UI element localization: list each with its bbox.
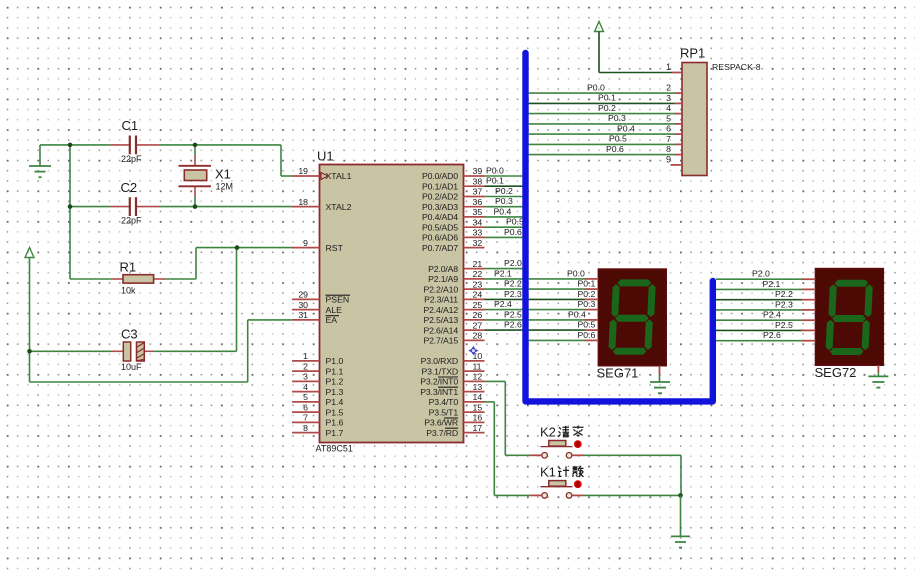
svg-text:24: 24 (473, 290, 483, 300)
svg-text:P2.5: P2.5 (504, 309, 522, 319)
svg-text:K2: K2 (540, 424, 556, 439)
svg-text:6: 6 (303, 402, 308, 412)
svg-text:P0.0: P0.0 (587, 82, 605, 92)
svg-text:9: 9 (666, 155, 671, 165)
svg-text:13: 13 (473, 382, 483, 392)
svg-text:P2.4/A12: P2.4/A12 (423, 305, 458, 315)
svg-text:10k: 10k (121, 286, 136, 296)
svg-text:P3.4/T0: P3.4/T0 (429, 397, 459, 407)
svg-text:5: 5 (303, 392, 308, 402)
svg-text:2: 2 (303, 361, 308, 371)
svg-text:33: 33 (473, 228, 483, 238)
svg-text:31: 31 (298, 310, 308, 320)
svg-text:28: 28 (473, 331, 483, 341)
svg-text:X1: X1 (215, 167, 231, 182)
svg-text:22pF: 22pF (121, 154, 142, 164)
svg-text:3: 3 (666, 93, 671, 103)
svg-text:37: 37 (473, 187, 483, 197)
svg-text:P3.5/T1: P3.5/T1 (429, 407, 459, 417)
svg-text:P3.7/RD: P3.7/RD (426, 428, 458, 438)
svg-text:P2.6/A14: P2.6/A14 (423, 325, 458, 335)
svg-text:P1.0: P1.0 (326, 356, 344, 366)
svg-text:P2.2/A10: P2.2/A10 (423, 284, 458, 294)
svg-text:11: 11 (473, 361, 482, 371)
svg-text:P2.0: P2.0 (752, 269, 770, 279)
svg-text:P0.2: P0.2 (495, 186, 513, 196)
svg-text:P0.3: P0.3 (578, 299, 596, 309)
svg-text:17: 17 (473, 423, 483, 433)
svg-text:10uF: 10uF (121, 362, 142, 372)
svg-text:P0.4/AD4: P0.4/AD4 (422, 212, 458, 222)
svg-text:P0.5: P0.5 (609, 134, 627, 144)
svg-text:AT89C51: AT89C51 (316, 444, 353, 454)
svg-text:XTAL1: XTAL1 (326, 171, 352, 181)
svg-text:8: 8 (303, 423, 308, 433)
svg-text:3: 3 (303, 372, 308, 382)
svg-text:P0.2: P0.2 (598, 103, 616, 113)
svg-text:P2.0: P2.0 (504, 258, 522, 268)
svg-text:38: 38 (473, 176, 483, 186)
svg-text:P2.6: P2.6 (504, 320, 522, 330)
svg-text:P2.5: P2.5 (775, 320, 793, 330)
svg-text:C2: C2 (121, 180, 138, 195)
svg-text:RST: RST (326, 243, 344, 253)
svg-text:29: 29 (298, 290, 308, 300)
svg-text:27: 27 (473, 320, 483, 330)
svg-text:P0.7/AD7: P0.7/AD7 (422, 243, 458, 253)
svg-text:P2.5/A13: P2.5/A13 (423, 315, 458, 325)
svg-text:P1.4: P1.4 (326, 397, 344, 407)
svg-text:8: 8 (666, 144, 671, 154)
svg-text:2: 2 (666, 83, 671, 93)
svg-text:P0.4: P0.4 (617, 123, 635, 133)
svg-text:34: 34 (473, 217, 483, 227)
svg-text:P1.3: P1.3 (326, 387, 344, 397)
svg-text:39: 39 (473, 166, 483, 176)
svg-text:C1: C1 (122, 118, 139, 133)
svg-text:P0.1: P0.1 (578, 279, 596, 289)
svg-text:P0.3: P0.3 (608, 113, 626, 123)
svg-text:P2.1/A9: P2.1/A9 (428, 274, 458, 284)
svg-text:5: 5 (666, 114, 671, 124)
svg-text:25: 25 (473, 300, 483, 310)
svg-text:R1: R1 (120, 260, 137, 275)
svg-text:14: 14 (473, 392, 483, 402)
svg-text:P0.0: P0.0 (567, 268, 585, 278)
svg-text:RESPACK-8: RESPACK-8 (712, 62, 761, 72)
svg-text:9: 9 (303, 238, 308, 248)
svg-text:19: 19 (298, 166, 308, 176)
svg-text:P3.3/INT1: P3.3/INT1 (420, 387, 458, 397)
svg-text:P2.2: P2.2 (504, 279, 522, 289)
svg-text:SEG71: SEG71 (597, 366, 639, 381)
svg-text:P2.0/A8: P2.0/A8 (428, 264, 458, 274)
svg-text:RP1: RP1 (680, 46, 705, 61)
svg-text:6: 6 (666, 124, 671, 134)
svg-text:P2.4: P2.4 (494, 299, 512, 309)
svg-text:12: 12 (473, 372, 483, 382)
svg-text:P0.4: P0.4 (568, 309, 586, 319)
svg-text:P2.3: P2.3 (775, 299, 793, 309)
svg-text:P2.1: P2.1 (763, 279, 781, 289)
svg-text:4: 4 (666, 103, 671, 113)
svg-text:P2.6: P2.6 (763, 330, 781, 340)
svg-text:P2.4: P2.4 (763, 310, 781, 320)
svg-text:SEG72: SEG72 (815, 365, 857, 380)
svg-text:21: 21 (473, 259, 483, 269)
svg-text:P0.3/AD3: P0.3/AD3 (422, 202, 458, 212)
svg-text:P3.0/RXD: P3.0/RXD (421, 356, 458, 366)
svg-text:P0.6: P0.6 (504, 227, 522, 237)
svg-text:P0.1: P0.1 (598, 93, 616, 103)
svg-text:XTAL2: XTAL2 (326, 202, 352, 212)
svg-text:P0.1: P0.1 (486, 176, 504, 186)
svg-text:32: 32 (473, 238, 483, 248)
svg-text:P2.1: P2.1 (494, 268, 512, 278)
svg-text:P0.0: P0.0 (486, 165, 504, 175)
svg-text:P3.6/WR: P3.6/WR (424, 418, 458, 428)
svg-text:1: 1 (303, 351, 308, 361)
svg-text:PSEN: PSEN (326, 295, 350, 305)
svg-text:P0.5: P0.5 (506, 217, 524, 227)
svg-text:P2.7/A15: P2.7/A15 (423, 336, 458, 346)
svg-text:P1.2: P1.2 (326, 377, 344, 387)
svg-text:K1: K1 (540, 464, 556, 479)
svg-text:P0.6/AD6: P0.6/AD6 (422, 233, 458, 243)
svg-text:P1.1: P1.1 (326, 366, 344, 376)
svg-text:P0.2/AD2: P0.2/AD2 (422, 192, 458, 202)
svg-text:35: 35 (473, 207, 483, 217)
svg-text:P0.6: P0.6 (606, 144, 624, 154)
svg-text:18: 18 (298, 197, 308, 207)
svg-text:EA: EA (326, 315, 338, 325)
svg-text:4: 4 (303, 382, 308, 392)
svg-text:P0.3: P0.3 (495, 196, 513, 206)
svg-text:P0.4: P0.4 (494, 206, 512, 216)
svg-text:P2.3/A11: P2.3/A11 (424, 295, 458, 305)
svg-text:22pF: 22pF (121, 216, 142, 226)
svg-text:15: 15 (473, 402, 483, 412)
svg-text:P2.2: P2.2 (775, 289, 793, 299)
svg-text:23: 23 (473, 279, 483, 289)
svg-text:ALE: ALE (326, 305, 343, 315)
svg-text:P0.2: P0.2 (578, 289, 596, 299)
svg-text:C3: C3 (121, 327, 138, 342)
svg-text:26: 26 (473, 310, 483, 320)
svg-text:7: 7 (303, 413, 308, 423)
svg-text:30: 30 (298, 300, 308, 310)
svg-text:P1.7: P1.7 (326, 428, 344, 438)
svg-text:P0.5: P0.5 (578, 320, 596, 330)
svg-text:P2.3: P2.3 (504, 289, 522, 299)
svg-text:P0.0/AD0: P0.0/AD0 (422, 171, 458, 181)
svg-text:7: 7 (666, 134, 671, 144)
svg-text:U1: U1 (317, 149, 334, 164)
svg-text:P0.1/AD1: P0.1/AD1 (422, 181, 458, 191)
svg-text:22: 22 (473, 269, 483, 279)
svg-text:P1.6: P1.6 (326, 418, 344, 428)
svg-text:P3.2/INT0: P3.2/INT0 (420, 377, 458, 387)
svg-text:P3.1/TXD: P3.1/TXD (422, 366, 458, 376)
svg-text:1: 1 (666, 62, 671, 72)
svg-text:P1.5: P1.5 (326, 407, 344, 417)
svg-text:P0.6: P0.6 (578, 330, 596, 340)
svg-text:P0.5/AD5: P0.5/AD5 (422, 222, 458, 232)
svg-text:36: 36 (473, 197, 483, 207)
svg-text:12M: 12M (216, 182, 234, 192)
svg-text:16: 16 (473, 413, 483, 423)
